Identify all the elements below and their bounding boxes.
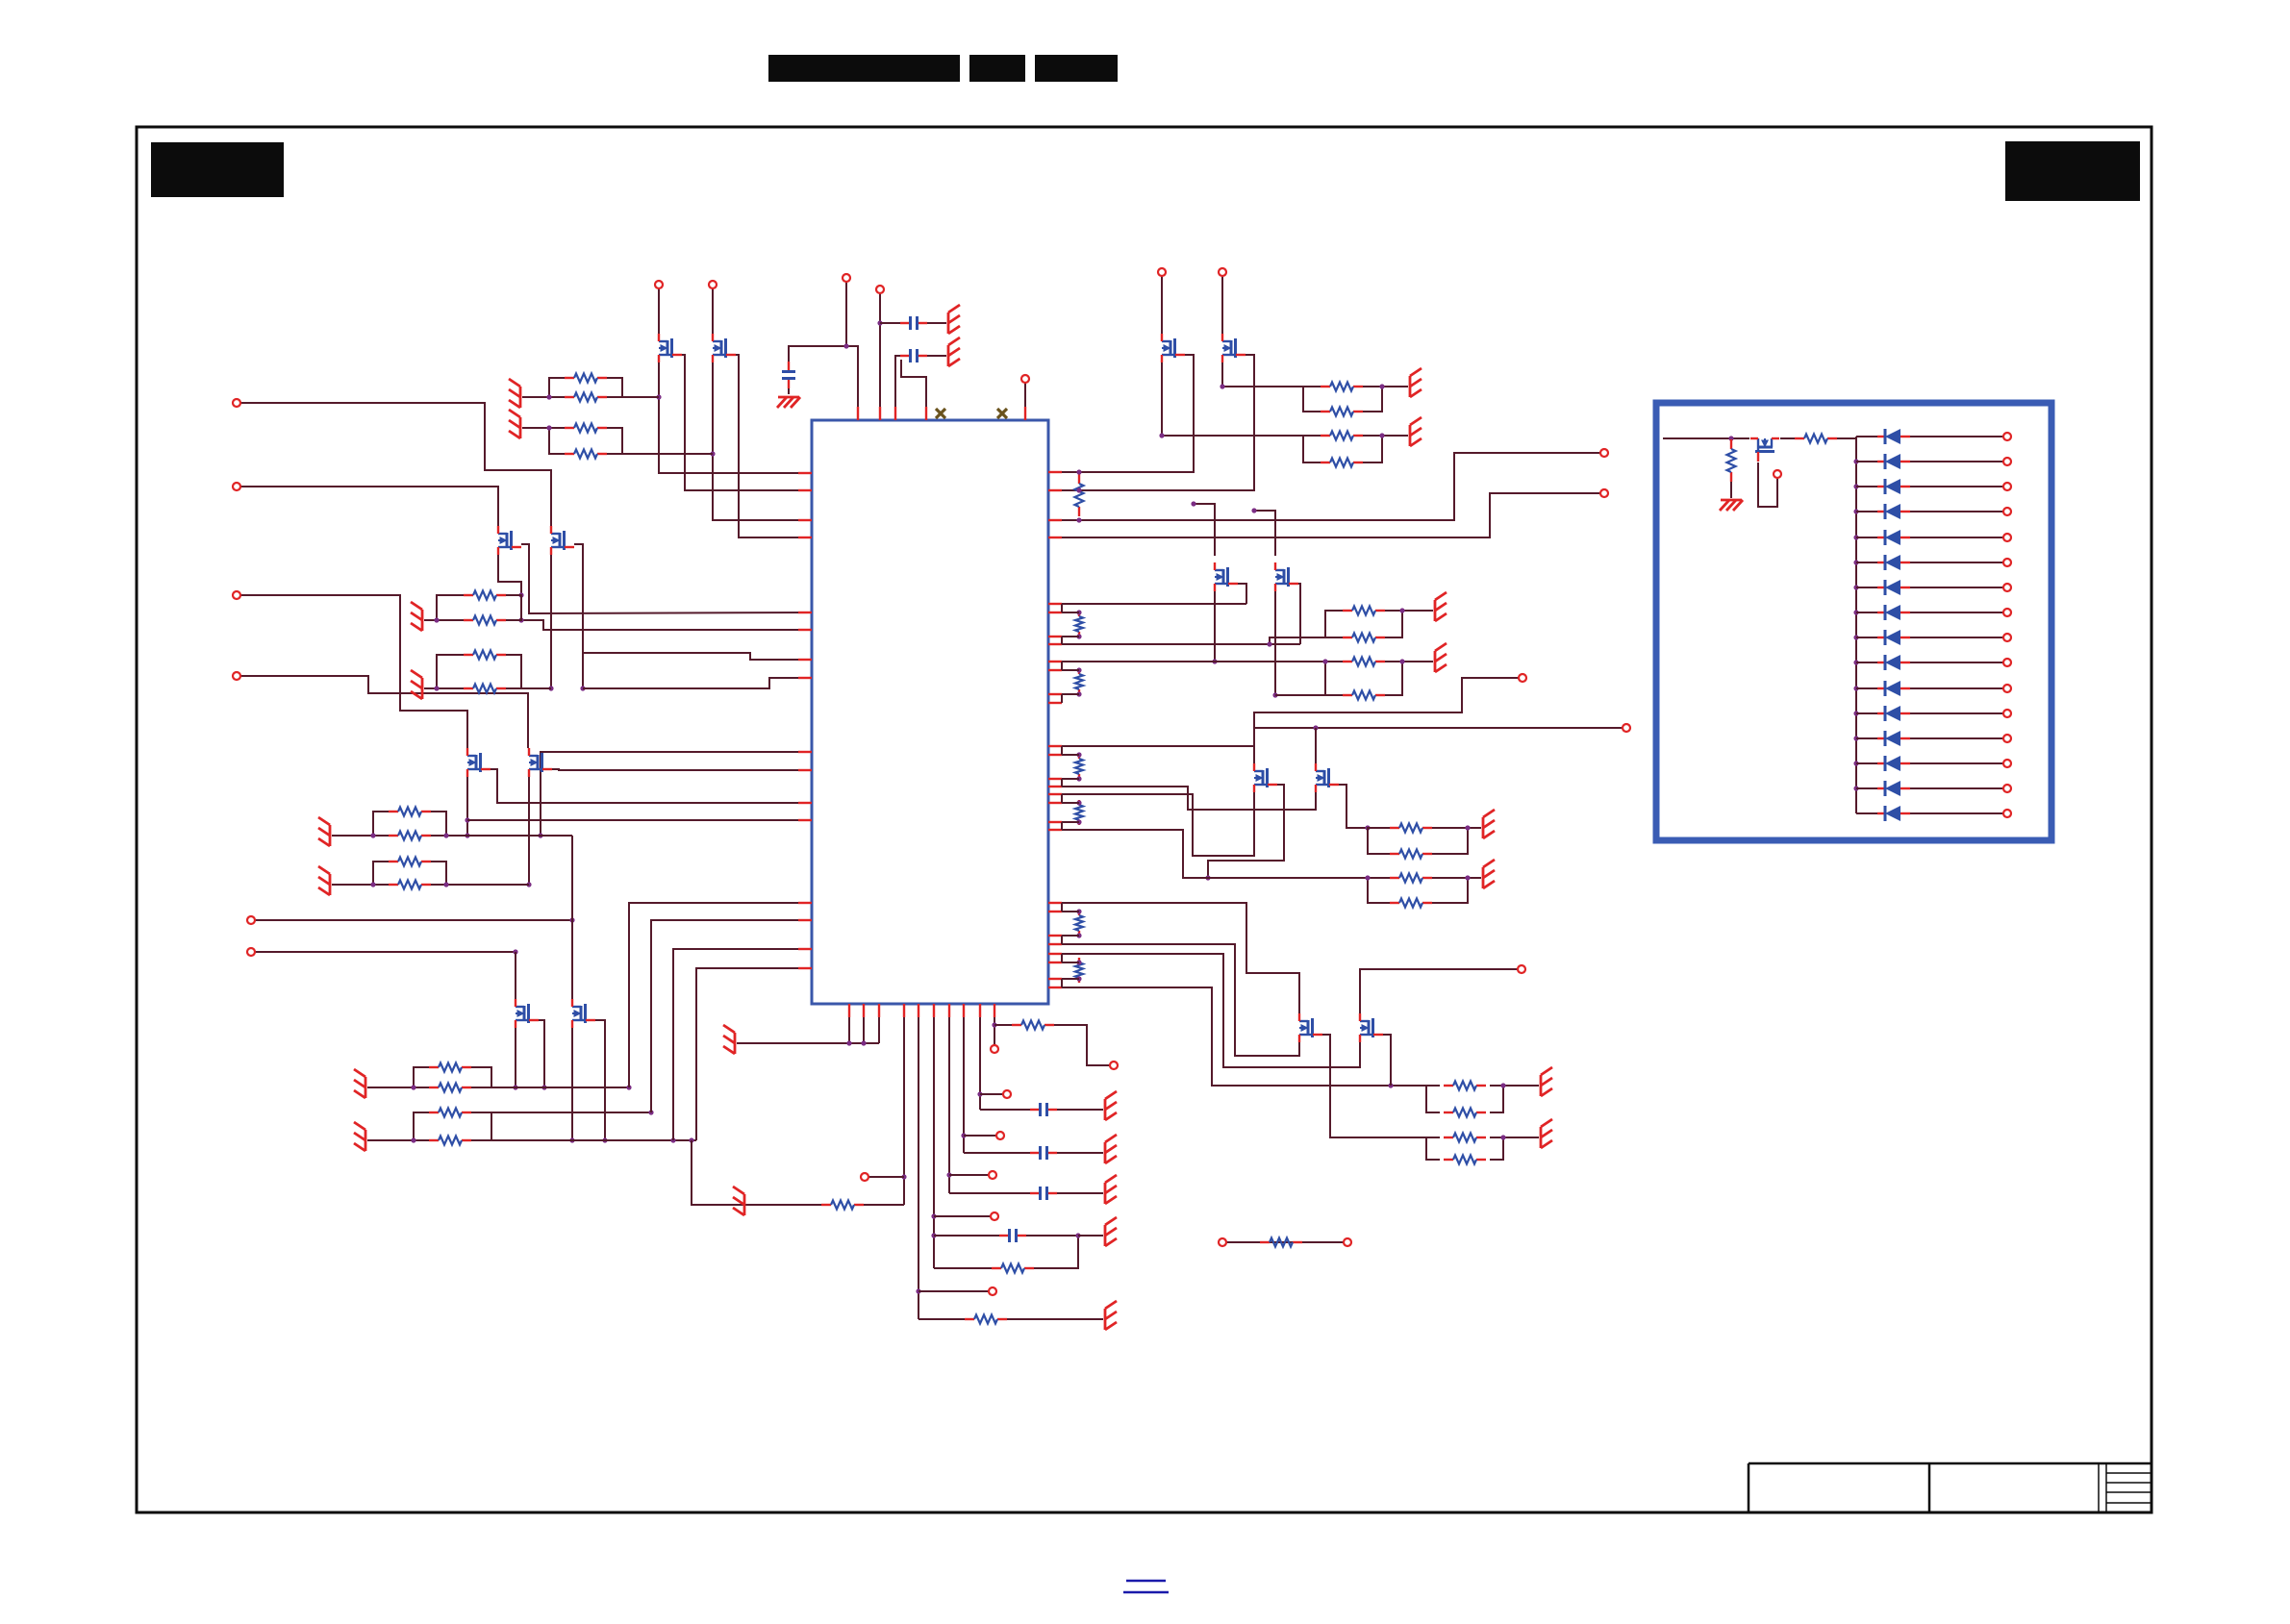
resistor Rr1 xyxy=(1075,474,1084,516)
resistor R12 xyxy=(1343,691,1385,700)
transistor Q15 xyxy=(1750,438,1779,462)
wire Q14 gate net xyxy=(571,1028,573,1140)
wire p1019 xyxy=(979,1017,981,1110)
wire R26R27 right bracket xyxy=(471,1067,491,1087)
capacitor C6 xyxy=(1030,1146,1057,1160)
wire Q13 gate net xyxy=(515,1028,516,1087)
wire p931-C2 xyxy=(895,356,900,420)
wire R2-Q1gate xyxy=(622,396,659,398)
wire R17R18 right bracket xyxy=(1490,1086,1503,1112)
junction vres 722 xyxy=(1076,691,1081,696)
wire gnd rail4 xyxy=(737,1042,879,1044)
wire R24R25 left bracket xyxy=(437,655,464,688)
wire D7 out xyxy=(1910,587,2003,588)
resistor R25 xyxy=(464,685,506,693)
resistor R4 xyxy=(565,450,607,459)
terminal P29 xyxy=(1774,470,1781,478)
wire Q15-R35 xyxy=(1780,437,1795,439)
wire Q13 drain xyxy=(515,952,516,1001)
wire gnd-R25 xyxy=(424,687,437,689)
wire D14 out xyxy=(1910,762,2003,764)
resistor QM3 xyxy=(389,858,431,866)
wire R26R27 left bracket xyxy=(414,1067,429,1087)
resistor R21 xyxy=(1260,1238,1302,1247)
capacitor C7 xyxy=(1030,1103,1057,1116)
resistor R32 xyxy=(992,1264,1034,1273)
ground row1241 xyxy=(1105,1175,1117,1204)
transistor Q9 xyxy=(1299,1013,1322,1042)
junction Q5df xyxy=(1191,501,1195,506)
wire D12 out xyxy=(1910,712,2003,714)
resistor R23 xyxy=(464,616,506,625)
wire Q12 source net xyxy=(574,544,583,688)
resistor Rr5 xyxy=(1075,800,1083,825)
wire D6 out xyxy=(1910,562,2003,563)
wire row1066 xyxy=(994,1024,1012,1026)
wire Q10 gate net xyxy=(1062,954,1360,1067)
terminal D8 xyxy=(2003,609,2011,616)
terminal P3 xyxy=(1021,375,1029,383)
wire Q15 source loop xyxy=(1758,462,1777,507)
no-connect X pin 2 xyxy=(997,409,1007,418)
resistor R19 xyxy=(1444,1134,1486,1142)
terminal P24 xyxy=(989,1171,996,1179)
wire Q1 gate net xyxy=(659,362,812,473)
junction Q6df xyxy=(1251,508,1256,512)
wire R17R18 left bracket xyxy=(1426,1086,1440,1112)
junction c4r xyxy=(1075,1233,1080,1237)
diode D11 xyxy=(1877,681,1910,696)
junction QAg-r2 xyxy=(465,833,469,837)
transistor Q10 xyxy=(1360,1013,1383,1042)
resistor R10 xyxy=(1343,634,1385,642)
wire p963 xyxy=(901,360,926,420)
wire R11R12 right bracket xyxy=(1385,662,1402,695)
ground C2 xyxy=(948,337,960,366)
wire QB gate net xyxy=(528,777,530,885)
wire D9 out xyxy=(1910,637,2003,638)
resistor R30 xyxy=(821,1201,864,1210)
wire p1034 xyxy=(994,1017,995,1045)
terminal D4 xyxy=(2003,508,2011,515)
resistor R17 xyxy=(1444,1082,1486,1090)
wire R13-gnd xyxy=(1468,827,1481,829)
junction Q3g xyxy=(1159,433,1164,437)
wire D1 out xyxy=(1910,436,2003,437)
wire R11-gnd xyxy=(1402,661,1433,662)
wire R19R20 left bracket xyxy=(1426,1137,1440,1160)
wire Q12 source branch xyxy=(583,653,812,660)
wire Q6 gate xyxy=(1274,591,1276,695)
wire gnd-QMr2 xyxy=(332,835,373,837)
diode D15 xyxy=(1877,781,1910,796)
transistor Q5 xyxy=(1215,562,1238,591)
wire D13 out xyxy=(1910,737,2003,739)
wire p782 net xyxy=(541,752,812,836)
junction vres 697 xyxy=(1076,667,1081,672)
wire Q9 source xyxy=(1322,1035,1426,1137)
wire p971 xyxy=(933,1017,935,1268)
ground QM4 xyxy=(318,866,330,895)
wire p940 xyxy=(903,1017,905,1205)
junction Q1g-R2 xyxy=(656,394,661,399)
redaction bar title 2 xyxy=(969,55,1025,82)
diode D10 xyxy=(1877,655,1910,670)
junction R29L xyxy=(411,1137,415,1142)
terminal P23 xyxy=(991,1212,998,1220)
junction vres 662 xyxy=(1076,634,1081,638)
wire T957 row xyxy=(255,919,572,921)
wire D4 out xyxy=(1910,511,2003,512)
ic U1 xyxy=(812,420,1048,1004)
ground R3 xyxy=(509,410,520,438)
redaction block top-right xyxy=(2005,141,2140,201)
junction row1186-719 xyxy=(689,1137,693,1142)
junction R7R xyxy=(1379,433,1384,437)
ground R11 xyxy=(1435,643,1447,672)
resistor R18 xyxy=(1444,1109,1486,1117)
wire D15 out xyxy=(1910,787,2003,789)
wire R5R6 left bracket xyxy=(1303,387,1321,412)
junction Q8 drain feed xyxy=(1313,725,1318,730)
wire R22R23 left bracket xyxy=(437,595,464,620)
terminal D13 xyxy=(2003,735,2011,742)
wire p1019 term xyxy=(980,1093,1003,1095)
junction R9R xyxy=(1399,608,1404,612)
junction gr1 xyxy=(846,1040,851,1045)
wire p957 net xyxy=(651,920,812,1112)
terminal P25 xyxy=(996,1132,1004,1139)
wire row1253b xyxy=(746,1204,821,1206)
junction R2L xyxy=(546,394,551,399)
wire C2-gnd xyxy=(927,355,946,357)
wire Q5 source xyxy=(1238,584,1246,604)
terminal D14 xyxy=(2003,760,2011,767)
junction vres 1001 xyxy=(1076,960,1081,964)
resistor Rr2 xyxy=(1075,612,1083,637)
junction Q12s xyxy=(580,686,585,690)
wire D8 out xyxy=(1910,612,2003,613)
terminal D12 xyxy=(2003,710,2011,717)
wire p863 row xyxy=(1062,830,1368,878)
wire row1186 ext xyxy=(491,1139,696,1141)
resistor R16 xyxy=(1390,899,1432,908)
terminal P4 xyxy=(655,281,663,288)
junction vres 491 xyxy=(1076,469,1081,474)
terminal P2 xyxy=(876,286,884,293)
wire R15R16 left bracket xyxy=(1368,878,1390,903)
junction Q12g xyxy=(548,686,553,690)
wire R34-gnd xyxy=(1730,482,1732,498)
terminal P21 xyxy=(861,1173,868,1181)
capacitor C3 xyxy=(782,362,795,388)
wire p1002b xyxy=(963,1017,965,1153)
wire QMr2-Q14 drain xyxy=(571,836,573,1001)
terminal P26 xyxy=(1003,1090,1011,1098)
wire gnd-R29 xyxy=(367,1139,414,1141)
wire row1241b xyxy=(1057,1192,1103,1194)
resistor R6 xyxy=(1321,408,1363,416)
wire C1-gnd xyxy=(927,322,946,324)
wire Q6 drain feed xyxy=(1254,511,1275,556)
terminal P22 xyxy=(989,1287,996,1295)
wire Q4 source net xyxy=(1062,355,1254,490)
wire Q14 source net xyxy=(595,1020,605,1140)
wire C1 lead xyxy=(880,322,900,324)
ground R23 xyxy=(411,602,422,631)
wire R1R2 right bracket xyxy=(607,378,622,397)
junction R23L xyxy=(434,617,439,622)
ground rail xyxy=(723,1025,735,1054)
junction row1157-677 xyxy=(648,1110,653,1114)
wire P8 net xyxy=(1062,453,1600,520)
wire p939 net xyxy=(629,903,812,1087)
resistor R2 xyxy=(565,393,607,402)
resistor R34 xyxy=(1727,439,1736,482)
wire R15-gnd xyxy=(1468,877,1481,879)
ground C1 xyxy=(948,305,960,334)
terminal P13 xyxy=(1219,1238,1226,1246)
resistor R31 xyxy=(965,1315,1007,1324)
resistor Rr4 xyxy=(1075,754,1083,779)
terminal P8 xyxy=(1600,449,1608,457)
junction Q11g xyxy=(518,592,523,597)
ground R13 xyxy=(1483,810,1495,838)
junction gr2 xyxy=(861,1040,866,1045)
wire vres ties xyxy=(1062,612,1079,979)
no-connect X pin 1 xyxy=(936,409,945,418)
junction R11R xyxy=(1399,659,1404,663)
wire QM r3r4 left bracket xyxy=(373,862,389,885)
terminal P6 xyxy=(1158,268,1166,276)
wire Q9 drain net xyxy=(1062,903,1299,1013)
resistor R14 xyxy=(1390,850,1432,859)
junction QMr2L xyxy=(370,833,375,837)
terminal P15 xyxy=(233,399,240,407)
wire D2 out xyxy=(1910,461,2003,462)
wire row1319 xyxy=(934,1267,992,1269)
wire R7R8 right bracket xyxy=(1363,436,1382,462)
wire gnd-QMr4 xyxy=(332,884,373,886)
junction R17R xyxy=(1500,1083,1505,1087)
wire QB source net xyxy=(552,769,812,770)
wire Q2 source net xyxy=(736,355,812,537)
wire row1285c xyxy=(1078,1235,1103,1237)
ground R15 xyxy=(1483,860,1495,888)
wire diode stubs xyxy=(1853,437,1877,813)
resistor Rr7 xyxy=(1075,958,1083,983)
resistor R35 xyxy=(1795,435,1837,443)
diode D8 xyxy=(1877,605,1910,620)
wire p955 xyxy=(918,1017,919,1319)
terminal D15 xyxy=(2003,785,2011,792)
resistor R22 xyxy=(464,591,506,600)
wire QM r1r2 left bracket xyxy=(373,812,389,836)
resistor R33 xyxy=(1012,1021,1054,1030)
wire C3-gnd xyxy=(788,382,790,394)
link line 1 xyxy=(1126,1580,1166,1582)
junction p1034t xyxy=(992,1022,996,1027)
wire row1199 xyxy=(964,1152,1030,1154)
resistor R26 xyxy=(429,1063,471,1072)
wire Q10 source xyxy=(1383,1035,1391,1086)
terminal P1 xyxy=(843,274,850,282)
wire row1241 xyxy=(949,1192,1030,1194)
transistor QA xyxy=(467,748,491,777)
junction Q2g-R4 xyxy=(710,451,715,456)
wire row1199b xyxy=(1057,1152,1103,1154)
junction vres 855 xyxy=(1076,819,1081,824)
wire row1154b xyxy=(1057,1109,1103,1111)
wire R21 leads xyxy=(1226,1241,1344,1243)
junction p955t xyxy=(916,1288,920,1293)
wire R4-Q2gate xyxy=(622,453,713,455)
junction Q13g xyxy=(513,1085,517,1089)
redaction bar title 3 xyxy=(1035,55,1118,82)
terminal D16 xyxy=(2003,810,2011,817)
wire R9R10 right bracket xyxy=(1385,611,1402,637)
junction Q13s xyxy=(541,1085,546,1089)
resistor R5 xyxy=(1321,383,1363,391)
wire P10 net xyxy=(1062,678,1519,746)
junction QMr4L xyxy=(370,882,375,887)
wire row1253a xyxy=(864,1204,904,1206)
wire D11 out xyxy=(1910,687,2003,689)
resistor Rr6 xyxy=(1075,911,1083,936)
wire QA source net xyxy=(491,769,812,803)
wire R5-gnd xyxy=(1382,386,1408,387)
wire R9R10 left bracket xyxy=(1325,611,1343,637)
junction Q14s xyxy=(602,1137,607,1142)
wire p1027 row xyxy=(1062,987,1426,1086)
redaction block top-left xyxy=(151,142,284,197)
ground row1253 xyxy=(733,1187,744,1215)
diode D14 xyxy=(1877,756,1910,771)
junction Q6 gate xyxy=(1272,692,1277,697)
junction p1019t xyxy=(977,1091,982,1096)
wire p853 row xyxy=(467,819,812,821)
resistor R13 xyxy=(1390,824,1432,833)
terminal D3 xyxy=(2003,483,2011,490)
callout box xyxy=(1656,403,2051,840)
resistor R3 xyxy=(565,424,607,433)
wire row723 ext xyxy=(1275,694,1343,696)
wire R13R14 left bracket xyxy=(1368,828,1390,854)
wire R24R25 right bracket xyxy=(506,655,521,688)
ground R5 xyxy=(1410,368,1422,397)
wire Q11 gate net xyxy=(498,555,521,595)
junction p940t xyxy=(901,1174,906,1179)
wire P17 net xyxy=(240,595,467,748)
diode D5 xyxy=(1877,530,1910,545)
terminal P18 xyxy=(233,672,240,680)
wire D3 out xyxy=(1910,486,2003,487)
ground row1372 xyxy=(1105,1301,1117,1330)
diode D9 xyxy=(1877,630,1910,645)
wire Q3 source net xyxy=(1062,355,1194,472)
wire p670 row xyxy=(1062,643,1300,645)
title block xyxy=(1749,1463,2152,1512)
wire row1285b xyxy=(1026,1236,1078,1268)
resistor R8 xyxy=(1321,459,1363,467)
ground R19 xyxy=(1541,1119,1552,1148)
wire D16 out xyxy=(1910,812,2003,814)
wire row1066b xyxy=(1054,1025,1110,1065)
wire Q11 source net xyxy=(521,544,812,613)
terminal P20 xyxy=(247,948,255,956)
resistor R11 xyxy=(1343,658,1385,666)
terminal D5 xyxy=(2003,534,2011,541)
terminal P11 xyxy=(1623,724,1630,732)
resistor R7 xyxy=(1321,432,1363,440)
wire gnd-R2 xyxy=(522,396,549,398)
junction R11L xyxy=(1322,659,1327,663)
wire right pin brackets xyxy=(1061,604,1063,987)
wire P2-pin xyxy=(879,293,881,420)
junction R15R xyxy=(1465,875,1470,880)
wire Q7 gate net xyxy=(1062,792,1254,856)
capacitor C4 xyxy=(999,1229,1026,1242)
junction row1186-700 xyxy=(670,1137,675,1142)
junction QMr2R xyxy=(443,833,448,837)
junction R5R xyxy=(1379,384,1384,388)
wire Q1 source net xyxy=(682,355,812,490)
capacitor C1 xyxy=(900,316,927,330)
wire QM row869 ext xyxy=(446,835,572,837)
wire gnd rail2 xyxy=(863,1017,865,1043)
ground C3 xyxy=(777,397,800,408)
resistor Rr3 xyxy=(1075,669,1083,694)
wire node-C3 xyxy=(789,346,846,368)
terminal D1 xyxy=(2003,433,2011,440)
junction p971t xyxy=(931,1213,936,1218)
junction R15L xyxy=(1365,875,1370,880)
wire Q9 gate net xyxy=(1062,944,1299,1056)
ground R7 xyxy=(1410,417,1422,446)
junction R27L xyxy=(411,1085,415,1089)
diode D3 xyxy=(1877,479,1910,494)
junction QAg-853 xyxy=(465,817,469,822)
ground QM2 xyxy=(318,817,330,846)
wire RP3 feed xyxy=(1270,637,1325,644)
wire Q3 gate net xyxy=(1162,362,1303,436)
ground row1285 xyxy=(1105,1217,1117,1246)
wire R35-bus xyxy=(1837,437,1856,439)
wire P4-Q1 drain xyxy=(658,288,660,334)
diode D7 xyxy=(1877,580,1910,595)
junction Q14g xyxy=(569,1137,574,1142)
junction p1002t xyxy=(961,1133,966,1137)
redaction bar title 1 xyxy=(768,55,960,82)
diode D1 xyxy=(1877,429,1910,444)
wire p892 xyxy=(846,346,858,420)
terminal P19 xyxy=(247,916,255,924)
transistor QB xyxy=(529,748,552,777)
diode D4 xyxy=(1877,504,1910,519)
transistor Q12 xyxy=(551,526,574,555)
wire p987 term xyxy=(949,1174,989,1176)
wire row1372b xyxy=(1007,1318,1103,1320)
wire R1R2 left bracket xyxy=(549,378,565,397)
terminal P27 xyxy=(991,1045,998,1053)
wire P18 net xyxy=(240,676,528,748)
wire T990 row xyxy=(255,951,516,953)
wire QA gate net xyxy=(466,777,468,836)
wire R19R20 right bracket xyxy=(1490,1137,1503,1160)
junction row1131-654 xyxy=(626,1085,631,1089)
wire row1285 xyxy=(934,1235,999,1237)
junction R3L xyxy=(546,425,551,430)
